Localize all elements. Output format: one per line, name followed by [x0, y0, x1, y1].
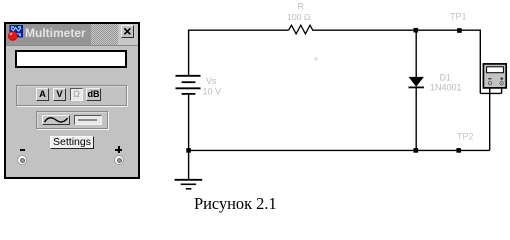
- battery Vs: [176, 76, 201, 94]
- caption: Рисунок 2.1: [194, 194, 277, 214]
- node TP1 junction: [457, 28, 462, 33]
- svg-text:TP1: TP1: [450, 11, 467, 21]
- junction: diode top: [414, 28, 419, 33]
- plus terminal jack: [114, 155, 124, 165]
- svg-text:R: R: [298, 2, 305, 12]
- ground: [175, 180, 203, 189]
- waveform button panel: [36, 111, 108, 129]
- svg-text:1N4001: 1N4001: [430, 83, 462, 93]
- resistor R1 zigzag: [289, 25, 315, 34]
- function button panel: [16, 85, 127, 106]
- wire: battery top to resistor left: [189, 30, 289, 76]
- diode D1: [409, 77, 424, 88]
- display readout: [15, 50, 127, 68]
- wire: resistor right to top-right corner, down to meter: [315, 30, 481, 93]
- svg-text:10 V: 10 V: [203, 87, 222, 97]
- junction: diode bottom: [414, 148, 419, 153]
- node TP2 label: [457, 131, 474, 141]
- close button: [121, 25, 134, 38]
- label D1: [440, 73, 452, 83]
- wire: battery bottom to bottom-left corner: [188, 94, 190, 150]
- label R: [298, 2, 305, 12]
- minus terminal label: [20, 149, 25, 151]
- minus terminal jack: [17, 155, 27, 165]
- wire: meter bottom horizontal link: [480, 92, 501, 94]
- Settings button: [50, 136, 94, 149]
- multimeter instrument panel window: [4, 22, 140, 179]
- window title: [25, 24, 86, 45]
- AC (sine) button: [42, 115, 70, 125]
- grid dot artifact: [314, 57, 319, 62]
- label Vs: [206, 76, 217, 86]
- DC (dash) button: [74, 115, 102, 125]
- wire: bottom rail: [189, 149, 490, 151]
- wire: diode branch vertical: [415, 30, 417, 150]
- value label 1N4001: [430, 83, 462, 93]
- value label 10 V: [203, 87, 222, 97]
- wire: ground stem: [188, 150, 190, 179]
- title bar: [6, 24, 138, 46]
- node TP1 label: [450, 11, 467, 21]
- wire: meter left terminal drop to bottom wire: [489, 88, 491, 150]
- plus terminal label: [115, 146, 122, 153]
- title bar dither gradient: [91, 24, 118, 45]
- svg-text:D1: D1: [440, 73, 452, 83]
- svg-text:100 Ω: 100 Ω: [287, 12, 311, 22]
- value label 100 Ohm: [287, 12, 311, 22]
- wire: meter right terminal stub: [501, 88, 503, 93]
- svg-text:TP2: TP2: [457, 131, 474, 141]
- junction: bottom-left corner: [186, 148, 191, 153]
- svg-text:Vs: Vs: [206, 76, 217, 86]
- multimeter probe icon XMM1: [483, 64, 506, 88]
- node TP2 junction: [456, 148, 461, 153]
- window icon: [7, 25, 23, 41]
